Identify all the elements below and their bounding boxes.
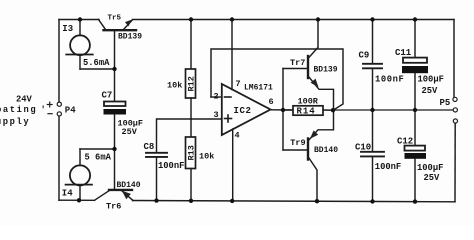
svg-text:25V: 25V (122, 127, 138, 137)
svg-text:R13: R13 (187, 145, 197, 160)
wire left supply column (58, 20, 60, 103)
svg-text:100nF: 100nF (158, 161, 184, 171)
svg-text:C11: C11 (395, 48, 412, 58)
svg-text:R12: R12 (187, 76, 197, 91)
svg-text:100R: 100R (298, 97, 319, 107)
node C11 C12 mid (413, 108, 417, 112)
svg-text:Tr7: Tr7 (290, 58, 305, 68)
capacitor C11 (402, 20, 428, 111)
node I4 bottom rail (77, 198, 81, 202)
svg-text:C9: C9 (359, 51, 370, 61)
wire output node column to bases (282, 69, 284, 151)
wire left negative column (58, 116, 60, 200)
svg-text:25V: 25V (422, 86, 439, 96)
svg-text:supply: supply (0, 117, 30, 127)
transistor Tr7 (308, 20, 334, 111)
svg-text:100nF: 100nF (375, 162, 401, 172)
wire opamp pin7 supply (231, 20, 233, 90)
current source I4 (66, 149, 93, 200)
node C8 bottom rail (154, 198, 158, 202)
node R13 bottom rail (189, 199, 193, 203)
svg-text:': ' (41, 105, 46, 115)
svg-text:2: 2 (214, 91, 219, 101)
svg-text:24V: 24V (16, 95, 33, 105)
wire to Tr9 base (283, 149, 307, 151)
wire opamp output (271, 109, 294, 111)
svg-text:floating: floating (0, 105, 37, 115)
wire I3 to node (80, 68, 115, 70)
node C11 top rail (413, 17, 417, 21)
transistor Tr9 (308, 111, 334, 202)
resistor R14 (283, 106, 333, 115)
svg-text:100µF: 100µF (417, 163, 443, 173)
capacitor C8 (146, 153, 167, 201)
node R12 top rail (189, 17, 193, 21)
wire to Tr7 base (283, 68, 307, 70)
svg-text:LM6171: LM6171 (244, 84, 273, 93)
wire mid output line (333, 109, 453, 111)
svg-text:25V: 25V (424, 173, 441, 183)
transistor Tr6 (95, 190, 134, 201)
node C9 top rail (370, 17, 374, 21)
connector P4 terminals (57, 102, 61, 116)
svg-text:10k: 10k (167, 81, 182, 91)
svg-text:I4: I4 (62, 189, 73, 199)
capacitor C9 (363, 20, 382, 111)
svg-text:C7: C7 (102, 91, 113, 101)
svg-text:I3: I3 (62, 24, 73, 34)
svg-text:BD140: BD140 (117, 181, 141, 190)
svg-text:Tr5: Tr5 (108, 15, 122, 23)
node Tr7 collector top rail (316, 17, 320, 21)
wire top rail right segment (133, 19, 455, 21)
svg-text:BD140: BD140 (314, 146, 338, 155)
svg-text:6: 6 (269, 97, 274, 107)
node Tr9 collector bottom rail (315, 199, 319, 203)
svg-text:Tr9: Tr9 (290, 138, 305, 148)
node C9 C10 mid (370, 108, 374, 112)
capacitor C12 (405, 110, 427, 202)
node pin4 bottom rail (230, 199, 234, 203)
svg-text:BD139: BD139 (314, 66, 338, 75)
wire right edge column top (453, 20, 455, 98)
svg-text:C8: C8 (144, 142, 155, 152)
svg-text:4: 4 (235, 131, 240, 141)
svg-text:P5: P5 (440, 98, 451, 108)
svg-text:5 6mA: 5 6mA (85, 153, 112, 163)
svg-text:Tr6: Tr6 (106, 202, 121, 212)
wire feedback loop (211, 49, 343, 110)
svg-text:10k: 10k (199, 152, 214, 162)
node C10 bottom rail (370, 199, 374, 203)
op-amp IC2 (222, 84, 271, 135)
svg-text:R14: R14 (297, 106, 316, 116)
wire top rail left segment (59, 19, 99, 21)
svg-text:3: 3 (214, 110, 219, 120)
wire opamp pin2 stub (211, 96, 222, 98)
svg-text:C10: C10 (355, 143, 371, 153)
svg-text:5.6mA: 5.6mA (83, 58, 110, 68)
wire divider node to C8 (157, 119, 192, 152)
capacitor C10 (361, 110, 384, 201)
node C7 top (112, 67, 116, 71)
wire bottom rail right segment (133, 201, 456, 202)
resistor R13 (186, 119, 196, 201)
wire I4 to node (80, 148, 115, 150)
node C12 bottom rail (413, 199, 417, 203)
wire opamp pin4 supply (232, 129, 234, 201)
node I3 top rail (78, 17, 82, 21)
resistor R12 (186, 20, 196, 120)
current source I3 (66, 20, 93, 70)
svg-text:BD139: BD139 (118, 33, 142, 42)
connector P5 terminals (453, 97, 458, 123)
svg-text:C12: C12 (397, 137, 413, 147)
capacitor C7 (104, 31, 127, 189)
svg-text:100nF: 100nF (375, 75, 404, 85)
P4 minus sign (48, 113, 52, 115)
wire divider node to opamp pin3 (191, 118, 222, 120)
svg-text:100µF: 100µF (418, 75, 444, 85)
svg-text:IC2: IC2 (234, 106, 252, 116)
wire bottom rail left segment (59, 199, 95, 201)
wire right edge column bottom (454, 123, 456, 202)
node C7 bottom (112, 147, 116, 151)
P4 plus sign (47, 102, 52, 107)
transistor Tr5 (99, 20, 137, 31)
node pin7 top rail (230, 17, 234, 21)
svg-text:7: 7 (236, 79, 241, 89)
node opamp output (281, 108, 285, 112)
svg-text:P4: P4 (65, 106, 76, 116)
node R14 right (331, 108, 335, 112)
